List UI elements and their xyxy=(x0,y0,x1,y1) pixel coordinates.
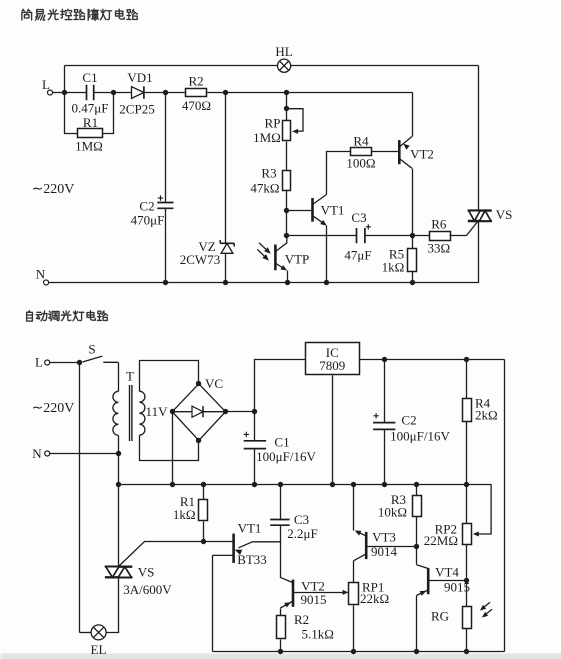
junction VTP-bottom xyxy=(285,280,290,285)
junction C2-bottom xyxy=(163,280,168,285)
wire R2 to VT2 emitter rail xyxy=(207,92,413,94)
wire IC ground pin xyxy=(332,376,334,485)
wire node J to R6 xyxy=(413,235,430,237)
plus sign C1 (circuit2) xyxy=(244,432,249,437)
wire mid rail to R3 xyxy=(416,485,418,496)
resistor R2 xyxy=(186,89,207,97)
wire VT1 emitter to bottom rail xyxy=(326,226,328,283)
svg-text:0.47μF: 0.47μF xyxy=(72,101,109,116)
switch S xyxy=(83,356,119,362)
svg-text:C3: C3 xyxy=(351,210,366,225)
svg-text:1kΩ: 1kΩ xyxy=(382,260,405,275)
wire DC+ down to C1 xyxy=(254,412,256,441)
svg-text:2CW73: 2CW73 xyxy=(180,252,220,267)
svg-text:HL: HL xyxy=(275,44,292,59)
wire left branch down to EL xyxy=(79,363,81,633)
wire switch to primary xyxy=(118,363,120,392)
title: 简易光控路障灯电路 xyxy=(22,9,137,20)
lamp HL xyxy=(278,59,291,72)
svg-text:47μF: 47μF xyxy=(344,248,371,263)
svg-text:2kΩ: 2kΩ xyxy=(475,408,498,423)
svg-text:R4: R4 xyxy=(353,134,369,149)
svg-text:L: L xyxy=(42,77,50,92)
node B junction xyxy=(111,90,116,95)
wire VT1 base xyxy=(287,210,312,212)
transistor VT3 xyxy=(354,531,367,561)
svg-text:R3: R3 xyxy=(261,166,276,181)
junction VT1-emitter-bottom xyxy=(324,280,329,285)
svg-text:∼220V: ∼220V xyxy=(32,401,75,416)
svg-text:VT4: VT4 xyxy=(435,565,459,580)
junction VT4-emitter-bottom xyxy=(414,649,419,654)
svg-text:100μF/16V: 100μF/16V xyxy=(256,449,316,464)
wire node C down to C2 xyxy=(165,93,167,203)
svg-text:10kΩ: 10kΩ xyxy=(378,505,407,520)
svg-text:22kΩ: 22kΩ xyxy=(360,591,389,606)
wire VZ to bottom rail xyxy=(225,254,227,283)
node G junction (VT1 base) xyxy=(284,208,289,213)
node L junction (VT4 base, RG) xyxy=(464,578,469,583)
junction mid-rail N branch xyxy=(116,482,121,487)
wire VT2 emitter to R2 xyxy=(280,609,282,616)
wire bridge minus down to mid rail xyxy=(172,412,174,485)
svg-text:S: S xyxy=(88,342,95,357)
wire node E down to RP xyxy=(286,93,288,121)
node H junction (VTP collector) xyxy=(284,233,289,238)
junction mid-rail VT3 xyxy=(351,482,356,487)
junction mid-rail R4 RP2 xyxy=(464,482,469,487)
svg-text:11V: 11V xyxy=(146,404,169,419)
wire VS to bottom rail corner xyxy=(49,221,479,283)
wire mid rail to RP2 top xyxy=(466,485,468,524)
RP1 wiper arrowhead xyxy=(343,590,349,595)
capacitor C1 xyxy=(87,85,94,100)
wire R5 to bottom rail xyxy=(412,272,414,283)
transistor VT2 (circuit2) xyxy=(280,580,293,608)
plus sign C2 xyxy=(158,195,163,200)
junction R5-bottom xyxy=(410,280,415,285)
RP2 wiper arm xyxy=(473,485,491,537)
wire mid rail to R1 xyxy=(203,485,205,500)
svg-text:1kΩ: 1kΩ xyxy=(173,507,196,522)
junction R2-bottom (c2) xyxy=(278,649,283,654)
wire primary bottom xyxy=(118,436,120,454)
wire node A up to top rail xyxy=(64,66,66,93)
wire R4 to mid rail xyxy=(466,422,468,485)
wire EL to left branch xyxy=(80,632,92,634)
capacitor C3 (circuit2) xyxy=(270,520,289,526)
svg-text:VT1: VT1 xyxy=(238,521,262,536)
svg-text:BT33: BT33 xyxy=(237,552,267,567)
wire R2 to bottom rail xyxy=(280,640,282,652)
wire right rail down to VS xyxy=(478,66,480,210)
terminal N (circuit 1) xyxy=(44,280,49,285)
svg-text:VD1: VD1 xyxy=(127,70,152,85)
svg-text:VS: VS xyxy=(496,207,513,222)
wire secondary top to bridge xyxy=(140,361,199,392)
node D junction xyxy=(223,90,228,95)
svg-text:R1: R1 xyxy=(83,115,98,130)
transistor VT2 xyxy=(399,137,412,169)
wire VT1 B1 down to bottom rail xyxy=(212,556,214,652)
photoresistor RG xyxy=(463,607,472,629)
wire mid rail down to VS xyxy=(118,485,120,567)
junction mid-rail IC pin xyxy=(330,482,335,487)
terminal N (circuit 2) xyxy=(45,451,50,456)
plus sign C3 xyxy=(366,224,371,229)
wire R6 to VS gate xyxy=(450,221,479,236)
bottom gray strip xyxy=(1,654,561,659)
wire right edge down xyxy=(504,360,506,652)
svg-text:RG: RG xyxy=(431,609,449,624)
terminal L (circuit 1) xyxy=(48,90,53,95)
wire R1 to trigger node xyxy=(203,522,205,542)
junction bridge bottom vertex xyxy=(196,438,201,443)
wire node K to VT4 collector xyxy=(416,547,418,565)
svg-text:R2: R2 xyxy=(189,74,204,89)
wire VT4 base to RP2 bottom node xyxy=(429,580,467,582)
wire RP2 bottom to node L xyxy=(466,545,468,581)
junction VZ-bottom xyxy=(223,280,228,285)
wire R3 to VTP collector node xyxy=(286,190,288,236)
node E junction xyxy=(284,90,289,95)
svg-text:470μF: 470μF xyxy=(131,213,165,228)
svg-text:VS: VS xyxy=(138,565,155,580)
node switch junction xyxy=(77,360,82,365)
junction mid-rail C1 xyxy=(252,482,257,487)
resistor R3 xyxy=(283,171,291,191)
svg-text:7809: 7809 xyxy=(319,358,345,373)
transformer T secondary winding xyxy=(139,391,145,435)
wire top rail right of HL xyxy=(291,65,479,67)
svg-text:5.1kΩ: 5.1kΩ xyxy=(302,627,334,642)
resistor R6 xyxy=(430,232,451,241)
plus sign C2 (circuit2) xyxy=(373,413,378,418)
svg-text:∼220V: ∼220V xyxy=(32,182,75,197)
wire RP1 top to VT3 collector xyxy=(353,561,355,583)
potentiometer RP1 xyxy=(349,583,359,605)
svg-text:100μF/16V: 100μF/16V xyxy=(390,429,450,444)
wire node J to R5 xyxy=(412,236,414,249)
node trigger junction xyxy=(201,539,206,544)
wire VT4 emitter to bottom rail xyxy=(416,596,418,652)
node K junction (VT3 base, VT4 collector) xyxy=(414,544,419,549)
wire R1 branch right xyxy=(103,93,114,134)
svg-text:L: L xyxy=(35,355,43,370)
wire VTP collector to C3 xyxy=(287,235,357,237)
bridge rectifier VC xyxy=(172,384,225,441)
junction mid-rail R1 xyxy=(201,482,206,487)
junction RG-bottom xyxy=(464,649,469,654)
svg-text:C1: C1 xyxy=(274,435,289,450)
wire VTP emitter to bottom rail xyxy=(287,271,289,283)
resistor R4 (circuit2) xyxy=(463,399,472,422)
wire C1 to node B xyxy=(94,92,132,94)
junction mid-rail bridge minus xyxy=(170,482,175,487)
resistor R1 xyxy=(78,129,103,138)
VTP light arrows xyxy=(257,243,270,261)
RG light arrows xyxy=(480,602,492,617)
node C junction xyxy=(163,90,168,95)
wire R4 to VT2 base xyxy=(372,151,399,153)
svg-text:VT1: VT1 xyxy=(321,203,345,218)
wire IC out down to C2 xyxy=(384,360,386,423)
svg-text:47kΩ: 47kΩ xyxy=(250,181,279,196)
transistor VT4 xyxy=(417,565,429,596)
wire VT3 emitter up to mid rail xyxy=(353,485,355,531)
wire node L to RG xyxy=(466,581,468,607)
wire rail to R4 xyxy=(466,360,468,399)
svg-text:9015: 9015 xyxy=(301,592,327,607)
wire C1 to mid rail xyxy=(254,449,256,485)
wire DC+ up to IC input xyxy=(255,360,306,412)
wire N to primary bottom xyxy=(50,453,119,455)
wire RP to R3 xyxy=(286,142,288,171)
wire C2 to mid rail xyxy=(384,430,386,485)
svg-text:33Ω: 33Ω xyxy=(427,241,450,256)
wire VT1 collector to R4 xyxy=(327,152,351,195)
capacitor C2 xyxy=(157,203,173,209)
node A junction xyxy=(62,90,67,95)
resistor R5 xyxy=(408,249,417,272)
wire secondary bottom to bridge xyxy=(140,436,199,461)
wire C3 to node J xyxy=(365,235,413,237)
resistor R4 xyxy=(351,148,372,156)
wire C3 down to VT2 collector xyxy=(281,526,293,583)
svg-text:3A/600V: 3A/600V xyxy=(123,582,172,597)
RP wiper arm xyxy=(287,109,303,134)
svg-text:RP: RP xyxy=(265,116,281,131)
diode VD1 xyxy=(132,86,144,98)
svg-text:VT2: VT2 xyxy=(410,147,434,162)
svg-text:2CP25: 2CP25 xyxy=(119,102,154,117)
junction bridge left vertex xyxy=(170,409,175,414)
triac VS (circuit 2) xyxy=(105,567,132,578)
wire N branch down to mid rail xyxy=(118,454,120,485)
wire VT3 base to node K xyxy=(367,546,417,548)
node J junction (VT2 collector, R5, R6) xyxy=(410,233,415,238)
wire VT2 base to RP1 wiper xyxy=(293,592,345,594)
node DC+ junction xyxy=(252,409,257,414)
svg-text:R2: R2 xyxy=(294,612,309,627)
wire top rail left of HL xyxy=(65,65,278,67)
IC U1 7809 box xyxy=(306,343,360,375)
svg-text:22MΩ: 22MΩ xyxy=(424,533,458,548)
svg-text:C2: C2 xyxy=(401,413,416,428)
svg-text:EL: EL xyxy=(91,642,107,657)
UJT VT1 BT33 xyxy=(212,534,280,563)
capacitor C3 (circuit1) xyxy=(357,228,365,243)
wire L to switch node xyxy=(50,362,80,364)
svg-text:VTP: VTP xyxy=(285,252,310,267)
node IC-out R4 junction xyxy=(464,357,469,362)
wire trigger to VT1 B2 xyxy=(204,541,233,543)
potentiometer RP xyxy=(283,121,291,141)
title: 自动调光灯电路 xyxy=(27,311,108,321)
lamp EL xyxy=(91,625,106,640)
wire trigger to VS gate xyxy=(119,542,204,567)
potentiometer RP2 xyxy=(463,524,472,545)
svg-text:C2: C2 xyxy=(139,199,154,214)
wire VT2 collector down xyxy=(412,169,414,236)
junction bridge right vertex xyxy=(223,409,228,414)
wire bridge plus to C1 node xyxy=(226,411,255,413)
transformer T core xyxy=(130,385,132,441)
wire mid rail to C3 xyxy=(280,485,282,520)
svg-text:VT3: VT3 xyxy=(372,530,396,545)
wire VS bottom to EL xyxy=(107,578,119,633)
junction RP1-bottom xyxy=(351,649,356,654)
svg-text:T: T xyxy=(126,369,134,384)
svg-text:470Ω: 470Ω xyxy=(182,98,211,113)
svg-text:C1: C1 xyxy=(82,70,97,85)
junction bridge top vertex xyxy=(196,381,201,386)
node N junction xyxy=(116,451,121,456)
junction mid-rail R3 xyxy=(414,482,419,487)
wire mid rail xyxy=(119,484,492,486)
svg-text:N: N xyxy=(36,267,46,282)
wire C2 to bottom rail xyxy=(165,209,167,283)
node F junction (RP wiper tap) xyxy=(284,106,289,111)
svg-text:C3: C3 xyxy=(294,512,309,527)
node IC-out C2 junction xyxy=(382,357,387,362)
wire VT2 emitter up to rail xyxy=(412,93,414,137)
wire L to node A xyxy=(53,92,87,94)
junction mid-rail C2 xyxy=(382,482,387,487)
terminal L (circuit 2) xyxy=(45,360,50,365)
transistor VT1 xyxy=(313,195,327,226)
wire bottom rail (circuit 2) xyxy=(213,651,505,653)
svg-text:1MΩ: 1MΩ xyxy=(253,130,281,145)
svg-text:N: N xyxy=(32,446,42,461)
resistor R3 (circuit2) xyxy=(413,496,422,517)
capacitor C2 (circuit2) xyxy=(373,423,395,430)
phototransistor VTP xyxy=(275,236,287,271)
wire VD1 to R2 xyxy=(144,92,186,94)
wire RP1 bottom to rail xyxy=(353,606,355,652)
svg-text:R6: R6 xyxy=(431,217,447,232)
transformer T primary winding xyxy=(113,391,118,435)
junction mid-rail C3 xyxy=(278,482,283,487)
svg-text:100Ω: 100Ω xyxy=(346,156,375,171)
capacitor C1 (circuit2) xyxy=(244,441,266,449)
svg-text:2.2μF: 2.2μF xyxy=(287,526,317,541)
wire R3 to node K xyxy=(416,517,418,547)
wire IC output rail xyxy=(360,359,505,361)
wire RG to bottom rail xyxy=(466,629,468,652)
zener diode VZ xyxy=(220,240,234,253)
svg-text:1MΩ: 1MΩ xyxy=(75,139,103,154)
triac VS (circuit 1) xyxy=(468,211,492,221)
resistor R2 (circuit2) xyxy=(277,616,286,639)
svg-text:VC: VC xyxy=(205,376,223,391)
wire R1 branch left xyxy=(65,93,78,134)
resistor R1 (circuit2) xyxy=(199,500,208,521)
wire node D down to VZ xyxy=(225,93,227,244)
